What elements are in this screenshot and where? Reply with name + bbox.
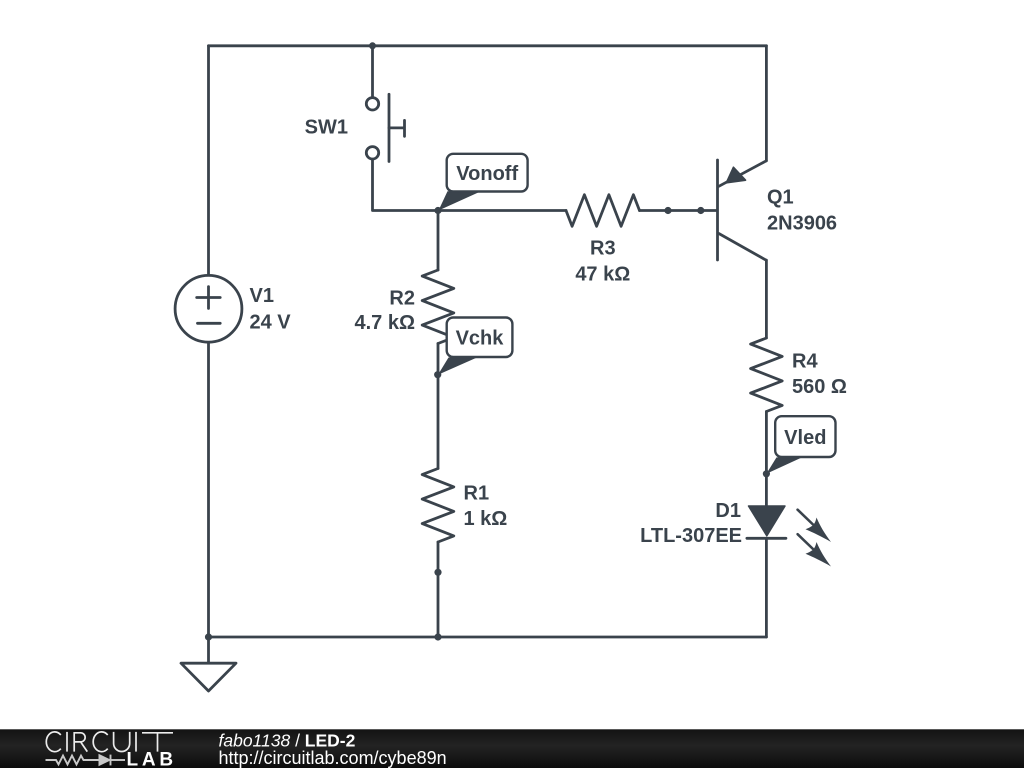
wire: SW1 bottom lead to Vonoff node [373, 160, 439, 210]
node: bottom rail / R1 branch junction [434, 633, 441, 640]
wire: V1 bottom lead [207, 342, 210, 637]
resistor R2 [422, 270, 454, 344]
svg-text:24 V: 24 V [250, 312, 292, 334]
wire: R4 bottom to LED anode (Vled node) [765, 412, 768, 507]
svg-text:Q1: Q1 [767, 187, 794, 209]
svg-text:2N3906: 2N3906 [767, 213, 837, 235]
transistor Q1 [716, 160, 719, 260]
ground [207, 637, 210, 663]
resistor R1 [422, 469, 454, 543]
node: top rail / SW1 junction [369, 42, 376, 49]
svg-text:4.7 kΩ: 4.7 kΩ [354, 312, 415, 334]
node Vled junction [763, 470, 770, 477]
wire: LED cathode to bottom rail [765, 538, 768, 637]
node Vchk junction [434, 371, 441, 378]
wire: top rail [209, 44, 767, 47]
wire: left rail (V1 top to top-left corner) [207, 46, 210, 276]
logo mini schematic (resistor + diode) [46, 755, 126, 766]
svg-text:D1: D1 [715, 500, 741, 522]
voltage source V1 [175, 275, 242, 342]
svg-text:R2: R2 [389, 288, 415, 310]
node: base wire dot A [664, 207, 671, 214]
callout Vled [766, 416, 835, 474]
svg-text:LAB: LAB [127, 750, 177, 768]
footer bar [0, 729, 1024, 768]
node Vonoff junction [434, 207, 441, 214]
LED light arrow 2 [798, 534, 831, 566]
diode D1 (LED) [749, 506, 786, 536]
LED light arrow 1 [798, 510, 831, 542]
wire: R3 to Q1 base [640, 209, 717, 212]
switch SW1 [366, 98, 378, 110]
svg-text:47 kΩ: 47 kΩ [575, 264, 630, 286]
wire: SW1 top lead [371, 46, 374, 97]
svg-text:SW1: SW1 [305, 117, 348, 139]
svg-text:1 kΩ: 1 kΩ [464, 508, 508, 530]
callout Vonoff [439, 154, 528, 211]
node: R1 bottom junction [434, 569, 441, 576]
resistor R4 [751, 338, 783, 412]
svg-text:http://circuitlab.com/cybe89n: http://circuitlab.com/cybe89n [219, 748, 447, 768]
wire: R2 top lead [437, 211, 440, 271]
wire: bottom rail [209, 636, 767, 639]
callout Vchk [438, 318, 512, 375]
svg-text:R1: R1 [464, 483, 490, 505]
logo CIRCUIT wordmark [46, 732, 173, 752]
wire: Q1 collector down to R4 [765, 260, 768, 338]
wire: R1 bottom lead to bottom rail [437, 542, 440, 637]
svg-text:Vchk: Vchk [456, 328, 505, 350]
wire: R2 bottom to R1 top (Vchk node) [437, 344, 440, 469]
resistor R3 [566, 195, 640, 227]
svg-text:LTL-307EE: LTL-307EE [640, 525, 742, 547]
svg-text:V1: V1 [250, 285, 274, 307]
svg-text:R3: R3 [590, 238, 616, 260]
svg-text:Vonoff: Vonoff [456, 163, 518, 185]
svg-text:560 Ω: 560 Ω [792, 376, 847, 398]
node: base wire dot B [697, 207, 704, 214]
svg-text:Vled: Vled [784, 427, 826, 449]
wire: top rail down to Q1 emitter corner [765, 46, 768, 161]
node: bottom rail / ground junction [205, 633, 212, 640]
svg-text:R4: R4 [792, 351, 818, 373]
wire: base wire from Vonoff node to R3 [438, 209, 566, 212]
